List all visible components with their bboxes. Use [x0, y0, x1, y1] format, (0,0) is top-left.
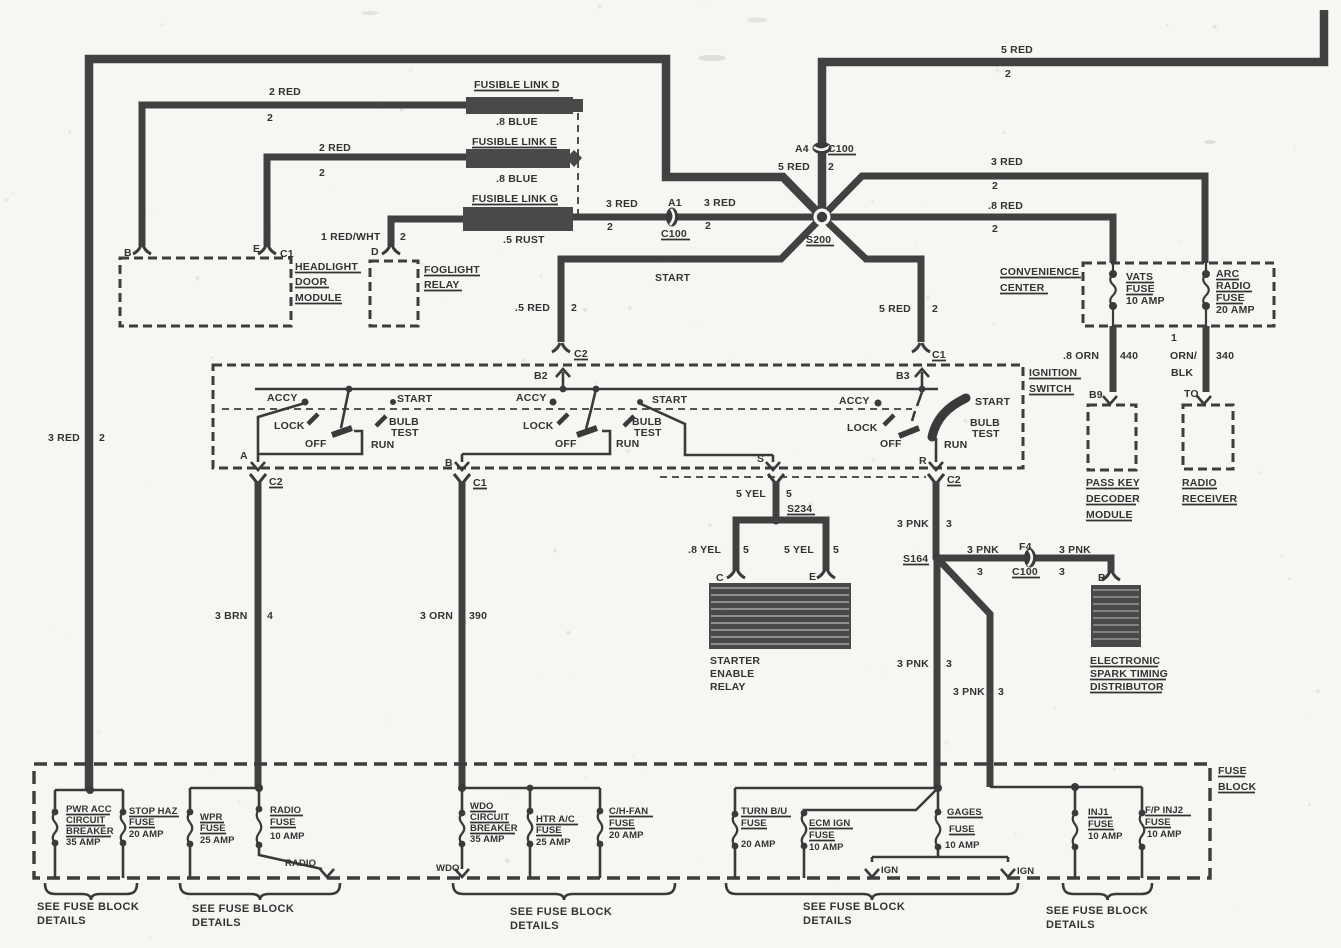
svg-text:10 AMP: 10 AMP — [1126, 295, 1165, 307]
svg-text:FUSE: FUSE — [129, 817, 155, 828]
svg-text:B3: B3 — [896, 370, 910, 382]
svg-text:CONVENIENCE: CONVENIENCE — [1000, 266, 1079, 278]
svg-text:DOOR: DOOR — [295, 276, 328, 288]
terminal B3 arrow — [896, 369, 929, 392]
svg-text:SEE FUSE BLOCK: SEE FUSE BLOCK — [37, 901, 139, 913]
svg-text:3: 3 — [1059, 566, 1065, 578]
svg-text:FUSIBLE LINK D: FUSIBLE LINK D — [474, 79, 560, 91]
svg-text:IGN: IGN — [881, 865, 898, 876]
splice S164 — [903, 553, 942, 565]
svg-text:B: B — [445, 457, 453, 469]
brace group 2 — [180, 883, 340, 929]
svg-text:3: 3 — [946, 518, 952, 530]
svg-text:C2: C2 — [269, 476, 283, 488]
svg-text:.8 BLUE: .8 BLUE — [496, 116, 538, 128]
svg-text:SEE FUSE BLOCK: SEE FUSE BLOCK — [803, 901, 905, 913]
svg-text:DETAILS: DETAILS — [803, 915, 852, 927]
svg-text:B2: B2 — [534, 370, 548, 382]
wire 5 YEL circuit 5 (terminal S to splice S234) — [736, 474, 792, 520]
fuse STOP HAZ 20 AMP — [120, 790, 179, 878]
svg-text:10 AMP: 10 AMP — [809, 842, 844, 853]
connector C2 (top, into ignition switch B2) — [574, 348, 588, 360]
svg-text:OFF: OFF — [555, 438, 577, 450]
svg-text:ACCY: ACCY — [516, 392, 547, 404]
brace group 1 — [37, 883, 139, 927]
ignition switch wafer 3: RUN position arm to terminal R — [839, 392, 1011, 451]
ignition switch feed rail — [255, 388, 938, 391]
headlight door module — [120, 243, 361, 326]
svg-text:5 YEL: 5 YEL — [736, 488, 766, 500]
svg-text:340: 340 — [1216, 350, 1234, 362]
svg-text:5: 5 — [743, 544, 749, 556]
svg-text:PWR ACC: PWR ACC — [66, 804, 112, 815]
svg-text:FUSE: FUSE — [949, 824, 975, 835]
svg-text:2: 2 — [828, 161, 834, 173]
circuit breaker WDO 35 AMP — [436, 788, 518, 877]
faint smudges — [698, 55, 726, 61]
ignition switch wafer 2: START contact wired to terminal S — [462, 386, 773, 455]
svg-text:2: 2 — [1005, 68, 1011, 80]
svg-text:B: B — [124, 247, 132, 259]
svg-text:FUSE: FUSE — [1216, 292, 1245, 304]
ignition switch wafer 1: ACCY contact wired to terminal A — [258, 386, 433, 454]
svg-text:F/P INJ2: F/P INJ2 — [1145, 805, 1183, 816]
svg-text:TEST: TEST — [391, 427, 419, 439]
wire 5 RED circuit 2 (S200 to ignition switch C1) — [822, 217, 938, 352]
svg-text:E: E — [809, 571, 816, 583]
svg-text:RADIO: RADIO — [270, 805, 301, 816]
wire 3 RED circuit 2 (S200 to ARC radio fuse) — [822, 156, 1205, 263]
svg-text:C: C — [716, 572, 724, 584]
svg-text:FUSIBLE LINK G: FUSIBLE LINK G — [472, 193, 558, 205]
svg-text:BREAKER: BREAKER — [470, 823, 518, 834]
connector C1 and wire 3 ORN circuit 390 (terminal B to fuse block) — [420, 474, 487, 788]
svg-text:5 RED: 5 RED — [1001, 44, 1033, 56]
wire .8 ORN circuit 440 (VATS fuse to pass key decoder B9) — [1063, 326, 1138, 404]
svg-text:5 RED: 5 RED — [879, 303, 911, 315]
svg-text:440: 440 — [1120, 350, 1138, 362]
svg-text:R: R — [919, 455, 927, 467]
svg-text:E: E — [253, 243, 260, 255]
fuse VATS 10 AMP — [1109, 263, 1165, 326]
svg-text:2: 2 — [932, 303, 938, 315]
svg-text:A: A — [240, 450, 248, 462]
svg-text:STOP HAZ: STOP HAZ — [129, 806, 178, 817]
svg-text:LOCK: LOCK — [274, 420, 305, 432]
svg-text:C100: C100 — [661, 228, 687, 240]
terminal A arrow — [240, 450, 265, 470]
fusible link E .8 BLUE — [466, 136, 582, 185]
svg-text:3 RED: 3 RED — [606, 198, 638, 210]
svg-text:3 RED: 3 RED — [991, 156, 1023, 168]
svg-text:SEE FUSE BLOCK: SEE FUSE BLOCK — [192, 903, 294, 915]
svg-text:HEADLIGHT: HEADLIGHT — [295, 261, 358, 273]
svg-text:WPR: WPR — [200, 812, 223, 823]
svg-text:20 AMP: 20 AMP — [741, 839, 776, 850]
svg-text:LOCK: LOCK — [847, 422, 878, 434]
svg-text:C1: C1 — [932, 349, 946, 361]
svg-text:ENABLE: ENABLE — [710, 668, 754, 680]
fusible link G .5 RUST — [463, 193, 573, 246]
splice S200 — [806, 209, 834, 247]
svg-text:OFF: OFF — [880, 438, 902, 450]
svg-text:2: 2 — [992, 223, 998, 235]
svg-text:ELECTRONIC: ELECTRONIC — [1090, 655, 1160, 667]
svg-text:F4: F4 — [1019, 541, 1032, 553]
svg-text:HTR A/C: HTR A/C — [536, 814, 575, 825]
svg-text:WDO: WDO — [436, 863, 460, 874]
svg-text:390: 390 — [469, 610, 487, 622]
svg-text:RADIO: RADIO — [1216, 280, 1251, 292]
svg-text:10 AMP: 10 AMP — [1088, 831, 1123, 842]
wire 3 PNK circuit 3 (S164 down to fuse block GAGES) — [897, 558, 952, 788]
svg-text:25 AMP: 25 AMP — [536, 837, 571, 848]
svg-text:3 PNK: 3 PNK — [897, 658, 929, 670]
svg-text:PASS KEY: PASS KEY — [1086, 477, 1140, 489]
svg-text:3: 3 — [977, 566, 983, 578]
IGN bus with arrows — [865, 857, 1034, 877]
fuse TURN B/U 20 AMP — [732, 788, 791, 878]
svg-text:C/H-FAN: C/H-FAN — [609, 806, 648, 817]
svg-text:20 AMP: 20 AMP — [609, 830, 644, 841]
svg-text:FUSE: FUSE — [809, 830, 835, 841]
connector dashed line below ignition switch — [660, 476, 926, 478]
svg-text:FUSE: FUSE — [270, 817, 296, 828]
wire 1 RED/WHT circuit 2 (fusible link G to foglight relay D) — [321, 219, 463, 254]
splice S234 — [772, 503, 816, 525]
svg-text:ARC: ARC — [1216, 268, 1240, 280]
svg-text:TURN B/U: TURN B/U — [741, 806, 787, 817]
terminal B2 arrow — [534, 369, 570, 392]
fuse HTR A/C 25 AMP — [527, 785, 578, 878]
svg-text:3 PNK: 3 PNK — [897, 518, 929, 530]
svg-text:SEE FUSE BLOCK: SEE FUSE BLOCK — [1046, 905, 1148, 917]
svg-text:A4: A4 — [795, 143, 809, 155]
svg-text:SEE FUSE BLOCK: SEE FUSE BLOCK — [510, 906, 612, 918]
wire .5 RED circuit 2 START (S200 to ignition switch C2) — [515, 217, 822, 352]
svg-text:C1: C1 — [473, 477, 487, 489]
svg-text:OFF: OFF — [305, 438, 327, 450]
fuse C/H-FAN 20 AMP — [597, 788, 653, 878]
svg-text:2: 2 — [571, 302, 577, 314]
svg-text:ORN/: ORN/ — [1170, 350, 1197, 362]
svg-text:MODULE: MODULE — [295, 292, 342, 304]
wire 1 ORN/BLK circuit 340 (ARC fuse to radio receiver) — [1170, 326, 1234, 404]
svg-text:FOGLIGHT: FOGLIGHT — [424, 264, 480, 276]
svg-text:2: 2 — [267, 112, 273, 124]
node: 3 BRN feed junction — [190, 784, 263, 792]
svg-text:DETAILS: DETAILS — [1046, 919, 1095, 931]
svg-text:ECM IGN: ECM IGN — [809, 818, 850, 829]
svg-text:5 YEL: 5 YEL — [784, 544, 814, 556]
svg-text:RADIO: RADIO — [285, 858, 316, 869]
svg-text:START: START — [652, 394, 688, 406]
svg-text:START: START — [975, 396, 1011, 408]
connector C1 (top, into ignition switch B3) — [932, 349, 946, 361]
svg-text:GAGES: GAGES — [947, 807, 982, 818]
svg-text:3: 3 — [998, 686, 1004, 698]
svg-text:3 PNK: 3 PNK — [967, 544, 999, 556]
brace group 5 — [1046, 883, 1152, 931]
fuse F/P INJ2 10 AMP — [1139, 787, 1191, 878]
svg-text:C100: C100 — [828, 143, 854, 155]
wire 5 RED circuit 2 (top right from S200) — [822, 10, 1324, 217]
connector C100 terminal A1 — [661, 197, 690, 240]
svg-text:FUSE: FUSE — [1126, 283, 1155, 295]
svg-text:10 AMP: 10 AMP — [1147, 829, 1182, 840]
svg-text:S234: S234 — [787, 503, 812, 515]
fuse RADIO 10 AMP — [256, 788, 334, 877]
svg-text:20 AMP: 20 AMP — [1216, 304, 1255, 316]
fuse INJ1 10 AMP — [1072, 787, 1124, 878]
fuse block box — [34, 764, 1257, 878]
svg-text:4: 4 — [267, 610, 273, 622]
svg-text:2: 2 — [319, 167, 325, 179]
foglight relay — [370, 246, 480, 326]
svg-text:RUN: RUN — [944, 439, 967, 451]
svg-text:CIRCUIT: CIRCUIT — [470, 812, 509, 823]
wire 5 YEL circuit 5 (S234 to starter enable relay E) — [776, 520, 839, 583]
svg-text:C1: C1 — [280, 248, 294, 260]
svg-text:STARTER: STARTER — [710, 655, 760, 667]
wire 3 PNK circuit 3 (S164 to EST distributor via C100 F4) — [937, 544, 1120, 584]
connector C100 terminal A4 — [778, 142, 856, 173]
svg-text:SWITCH: SWITCH — [1029, 383, 1072, 395]
fusible link D .8 BLUE — [466, 79, 583, 128]
svg-text:ACCY: ACCY — [267, 392, 298, 404]
svg-text:DECODER: DECODER — [1086, 493, 1140, 505]
fuse GAGES 10 AMP — [935, 788, 983, 857]
svg-text:2: 2 — [705, 220, 711, 232]
svg-text:2 RED: 2 RED — [319, 142, 351, 154]
connector C2 and wire 3 BRN circuit 4 (terminal A to fuse block) — [215, 474, 283, 788]
svg-text:CENTER: CENTER — [1000, 282, 1045, 294]
mechanical linkage dashed line — [222, 408, 912, 410]
svg-text:TEST: TEST — [634, 427, 662, 439]
svg-text:2: 2 — [607, 221, 613, 233]
connector C100 terminal F4 — [1012, 541, 1040, 578]
pass key decoder module — [1086, 405, 1140, 521]
svg-text:3 BRN: 3 BRN — [215, 610, 248, 622]
svg-text:C100: C100 — [1012, 566, 1038, 578]
svg-text:5 RED: 5 RED — [778, 161, 810, 173]
svg-text:C2: C2 — [947, 474, 961, 486]
svg-text:.8 YEL: .8 YEL — [688, 544, 721, 556]
svg-text:FUSE: FUSE — [1145, 817, 1171, 828]
svg-text:2 RED: 2 RED — [269, 86, 301, 98]
svg-text:.5 RED: .5 RED — [515, 302, 550, 314]
svg-text:FUSE: FUSE — [200, 823, 226, 834]
starter enable relay — [709, 583, 851, 693]
node: 3 ORN feed junction — [458, 784, 600, 792]
svg-text:10 AMP: 10 AMP — [945, 840, 980, 851]
svg-text:3 RED: 3 RED — [48, 432, 80, 444]
node: 3 RED feed junction — [55, 786, 123, 794]
wire .8 RED circuit 2 (S200 to VATS fuse) — [822, 200, 1113, 263]
svg-text:35 AMP: 35 AMP — [66, 837, 101, 848]
svg-text:RELAY: RELAY — [710, 681, 746, 693]
wire 2 RED circuit 2 (fusible link D to headlight module B) — [133, 86, 466, 254]
svg-text:B: B — [1098, 572, 1106, 584]
svg-text:TEST: TEST — [972, 428, 1000, 440]
svg-text:BLK: BLK — [1171, 367, 1193, 379]
wire 3 PNK circuit 3 (S164 diagonal to fuse block INJ feed) — [937, 558, 1004, 787]
svg-text:3 PNK: 3 PNK — [1059, 544, 1091, 556]
svg-text:B9: B9 — [1089, 389, 1103, 401]
svg-text:3 RED: 3 RED — [704, 197, 736, 209]
wire 2 RED circuit 2 (fusible link E to headlight module E) — [258, 142, 466, 254]
svg-text:TO: TO — [1184, 388, 1199, 400]
svg-text:RUN: RUN — [616, 438, 639, 450]
svg-text:S: S — [757, 453, 764, 465]
svg-text:DETAILS: DETAILS — [510, 920, 559, 932]
svg-text:ACCY: ACCY — [839, 395, 870, 407]
svg-text:2: 2 — [992, 180, 998, 192]
svg-text:FUSE: FUSE — [1088, 819, 1114, 830]
terminal R arrow — [919, 438, 943, 470]
svg-text:RUN: RUN — [371, 439, 394, 451]
svg-text:START: START — [655, 272, 691, 284]
wire .8 YEL circuit 5 (S234 to starter enable relay C) — [688, 520, 776, 584]
fuse ECM IGN 10 AMP — [801, 788, 938, 878]
svg-text:25 AMP: 25 AMP — [200, 835, 235, 846]
svg-text:3: 3 — [946, 658, 952, 670]
svg-text:5: 5 — [786, 488, 792, 500]
brace group 3 — [453, 883, 675, 932]
electronic spark timing distributor — [1090, 585, 1168, 693]
svg-text:3 ORN: 3 ORN — [420, 610, 453, 622]
radio receiver — [1182, 405, 1237, 505]
svg-text:1: 1 — [1171, 332, 1177, 344]
svg-text:CIRCUIT: CIRCUIT — [66, 815, 105, 826]
svg-text:FUSE: FUSE — [741, 818, 767, 829]
svg-text:C2: C2 — [574, 348, 588, 360]
svg-text:10 AMP: 10 AMP — [270, 831, 305, 842]
fuse ARC RADIO 20 AMP — [1202, 263, 1255, 326]
svg-text:35 AMP: 35 AMP — [470, 834, 505, 845]
node: 3 PNK feed junction (GAGES) — [735, 784, 942, 792]
dashed tie line from links D and E to link G output — [577, 113, 579, 214]
svg-text:FUSIBLE LINK E: FUSIBLE LINK E — [472, 136, 557, 148]
svg-text:.8 BLUE: .8 BLUE — [496, 173, 538, 185]
svg-text:FUSE: FUSE — [609, 818, 635, 829]
wire 3 RED circuit 2 (left loop from S200 to fuse block) — [48, 59, 822, 790]
fuse WPR 25 AMP — [187, 788, 236, 878]
svg-text:1 RED/WHT: 1 RED/WHT — [321, 231, 381, 243]
svg-text:2: 2 — [99, 432, 105, 444]
svg-text:LOCK: LOCK — [523, 420, 554, 432]
svg-text:RELAY: RELAY — [424, 279, 460, 291]
brace group 4 — [726, 883, 1018, 927]
svg-text:A1: A1 — [668, 197, 682, 209]
ignition switch box — [213, 365, 1081, 468]
svg-text:RADIO: RADIO — [1182, 477, 1217, 489]
svg-text:FUSE: FUSE — [536, 825, 562, 836]
svg-text:WDO: WDO — [470, 801, 494, 812]
svg-text:BREAKER: BREAKER — [66, 826, 114, 837]
svg-text:SPARK TIMING: SPARK TIMING — [1090, 668, 1168, 680]
svg-text:DETAILS: DETAILS — [192, 917, 241, 929]
terminal B arrow — [445, 454, 469, 470]
svg-text:FUSE: FUSE — [1218, 765, 1247, 777]
svg-text:S164: S164 — [903, 553, 928, 565]
svg-text:S200: S200 — [806, 234, 831, 246]
svg-text:D: D — [371, 246, 379, 258]
svg-text:2: 2 — [400, 231, 406, 243]
svg-text:20 AMP: 20 AMP — [129, 829, 164, 840]
convenience center box — [1000, 263, 1274, 326]
svg-text:START: START — [397, 393, 433, 405]
svg-text:IGNITION: IGNITION — [1029, 367, 1077, 379]
terminal S arrow — [757, 453, 780, 470]
node: INJ feed line — [990, 783, 1142, 791]
svg-text:BLOCK: BLOCK — [1218, 781, 1257, 793]
svg-text:3 PNK: 3 PNK — [953, 686, 985, 698]
svg-text:DISTRIBUTOR: DISTRIBUTOR — [1090, 681, 1164, 693]
svg-text:RECEIVER: RECEIVER — [1182, 493, 1237, 505]
svg-text:MODULE: MODULE — [1086, 509, 1133, 521]
svg-text:.5 RUST: .5 RUST — [503, 234, 545, 246]
svg-text:DETAILS: DETAILS — [37, 915, 86, 927]
circuit breaker PWR ACC 35 AMP — [52, 790, 114, 878]
svg-text:.8 RED: .8 RED — [988, 200, 1023, 212]
svg-text:5: 5 — [833, 544, 839, 556]
svg-text:INJ1: INJ1 — [1088, 807, 1109, 818]
wire 3 RED circuit 2 (S200 to fusible link G via C100 A1) — [573, 197, 822, 233]
svg-text:IGN: IGN — [1017, 866, 1034, 877]
connector C2 and wire 3 PNK circuit 3 (terminal R to splice S164) — [897, 474, 961, 558]
svg-text:VATS: VATS — [1126, 271, 1153, 283]
svg-text:.8 ORN: .8 ORN — [1063, 350, 1099, 362]
